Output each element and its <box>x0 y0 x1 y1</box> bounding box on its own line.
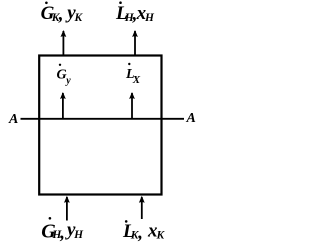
svg-text:,: , <box>59 223 65 244</box>
svg-text:K: K <box>156 230 166 242</box>
svg-text:H: H <box>144 12 155 24</box>
svg-text:H: H <box>73 229 84 241</box>
svg-text:G: G <box>57 68 67 83</box>
svg-text:y: y <box>65 75 71 86</box>
svg-text:,: , <box>137 223 143 244</box>
svg-text:A: A <box>186 111 196 126</box>
svg-text:X: X <box>132 74 141 86</box>
svg-text:,: , <box>58 4 64 25</box>
svg-text:A: A <box>8 112 18 127</box>
svg-text:K: K <box>74 12 84 24</box>
